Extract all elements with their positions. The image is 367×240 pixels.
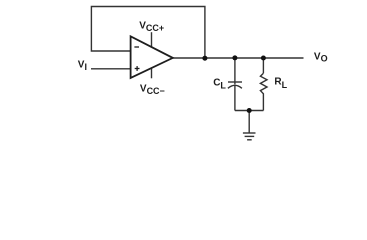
svg-text:VI: VI — [78, 59, 87, 72]
svg-text:RL: RL — [274, 77, 287, 90]
svg-text:VO: VO — [314, 51, 328, 63]
svg-text:VCC−: VCC− — [140, 83, 165, 96]
svg-text:CL: CL — [213, 78, 226, 91]
svg-text:VCC+: VCC+ — [139, 21, 164, 34]
